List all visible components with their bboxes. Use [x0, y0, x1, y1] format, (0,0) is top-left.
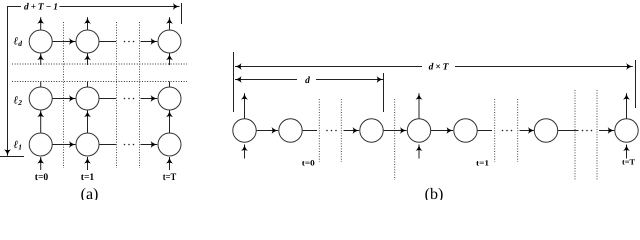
dotted separator b3 — [394, 99, 396, 180]
svg-text:d: d — [305, 76, 310, 86]
node circle b4 — [407, 119, 430, 142]
dimension left bracket vertical with down arrow — [7, 6, 9, 156]
svg-text:t=1: t=1 — [81, 172, 95, 183]
row l_1 ellipsis — [124, 144, 135, 146]
row l_2 : output stub col1 — [40, 82, 42, 88]
arrow b c1-c2 — [256, 130, 278, 132]
row l_1 horizontal arrow c1-c2 — [52, 144, 75, 146]
ellipsis b3 — [582, 130, 593, 132]
row l_2 horizontal arrow c1-c2 — [52, 98, 75, 100]
input arrow b-c1 — [244, 145, 246, 159]
svg-text:ℓ1: ℓ1 — [14, 139, 22, 152]
node circle a32 — [76, 133, 99, 156]
line from b c5 — [477, 130, 492, 132]
node circle b5 — [454, 119, 477, 142]
dotted separator b1 — [318, 99, 320, 162]
dotted column separator 1 (a) — [63, 22, 65, 168]
row l_1 line from c2 — [99, 144, 116, 146]
dimension d+T-1 top line right segment with right arrow — [60, 6, 180, 8]
dotted separator b4 — [494, 99, 496, 162]
row l_2 : output stub col3 — [169, 82, 171, 88]
svg-text:d + T − 1: d + T − 1 — [24, 3, 58, 13]
row l_1 : input arrow col3 — [169, 157, 171, 170]
row l_d arrow into c3 — [141, 41, 158, 43]
node circle a23 — [158, 87, 181, 110]
arrow b into c3 — [344, 130, 360, 132]
row l_d ellipsis — [124, 41, 135, 43]
row l_2 line from c2 — [99, 98, 116, 100]
row l_d : output arrow up col2 — [87, 17, 89, 30]
dimension d line left part with left arrow — [235, 79, 297, 81]
arrow b into c7 — [599, 130, 614, 132]
dotted separator b7 — [596, 90, 598, 181]
dotted separator b2 — [340, 99, 342, 162]
arrow l_1 to l_2 col3 — [169, 111, 171, 134]
output arrow up b-c7 — [626, 93, 628, 119]
svg-text:ℓ2: ℓ2 — [14, 95, 23, 108]
node circle b7 — [615, 119, 638, 142]
dimension d right tick — [383, 73, 385, 112]
row l_1 arrow into c3 — [141, 144, 158, 146]
dotted row separator upper (a) — [12, 63, 187, 65]
arrow b c4-c5 — [431, 130, 453, 132]
dimension baseline tick bottom-left — [0, 156, 24, 158]
row l_1 : input arrow col2 — [87, 157, 89, 170]
row l_d : input arrow col2 — [87, 54, 89, 66]
dimension d line right part with right arrow — [316, 79, 383, 81]
row l_2 ellipsis — [124, 98, 135, 100]
row l_1 : input arrow col1 — [40, 157, 42, 170]
row l_d : input arrow col3 — [169, 54, 171, 66]
svg-text:(a): (a) — [81, 186, 99, 200]
row l_2 arrow into c3 — [141, 98, 158, 100]
dotted row separator lower (a) — [12, 81, 187, 83]
dotted column separator 2 (a) — [116, 22, 118, 168]
svg-text:(b): (b) — [425, 186, 444, 200]
arrow l_1 to l_2 col2 — [87, 111, 89, 134]
input arrow b-c4 — [418, 145, 420, 159]
node circle a13 — [158, 30, 181, 53]
node circle a33 — [158, 133, 181, 156]
arrow b c3-c4 — [383, 130, 406, 132]
node circle a22 — [76, 87, 99, 110]
svg-text:t=T: t=T — [622, 158, 636, 167]
line from b c6 — [558, 130, 579, 132]
svg-text:t=0: t=0 — [302, 159, 315, 168]
dotted separator b5 — [517, 99, 519, 162]
node circle a21 — [29, 87, 52, 110]
row l_2 : output stub col2 — [87, 82, 89, 88]
dimension dxT line left part with left arrow — [235, 66, 422, 68]
output arrow up b-c4 — [418, 93, 420, 119]
input arrow b-c7 — [626, 145, 628, 159]
row l_d : output arrow up col1 — [40, 17, 42, 30]
node circle b2 — [279, 119, 302, 142]
node circle b6 — [534, 119, 557, 142]
row l_d line from c2 — [99, 41, 116, 43]
ellipsis b1 — [326, 130, 337, 132]
svg-text:t=1: t=1 — [476, 159, 489, 168]
arrow b into c6 — [520, 130, 535, 132]
node circle a31 — [29, 133, 52, 156]
row l_d : input arrow col1 — [40, 54, 42, 66]
dimension d+T-1 top line left segment — [7, 6, 21, 8]
dotted column separator 3 (a) — [139, 22, 141, 168]
svg-text:t=T: t=T — [163, 172, 177, 183]
row l_d horizontal arrow c1-c2 — [52, 41, 75, 43]
node circle a11 — [29, 30, 52, 53]
node circle b3 — [360, 119, 383, 142]
dimension dxT line right part with right arrow — [455, 66, 633, 68]
ellipsis b2 — [502, 130, 513, 132]
line from b c2 — [302, 130, 317, 132]
dotted separator b6 — [574, 90, 576, 181]
row l_d : output arrow up col3 — [169, 17, 171, 30]
node circle b1 — [233, 119, 256, 142]
svg-text:d × T: d × T — [429, 63, 450, 73]
svg-text:ℓd: ℓd — [14, 36, 23, 49]
svg-text:t=0: t=0 — [35, 172, 49, 183]
dimension dxT right tick — [635, 60, 637, 108]
dimension d+T-1 right tick — [181, 3, 183, 24]
output arrow up b-c1 — [244, 93, 246, 119]
node circle a12 — [76, 30, 99, 53]
arrow l_1 to l_2 col1 — [40, 111, 42, 134]
dimension left tick (b) — [233, 52, 235, 112]
